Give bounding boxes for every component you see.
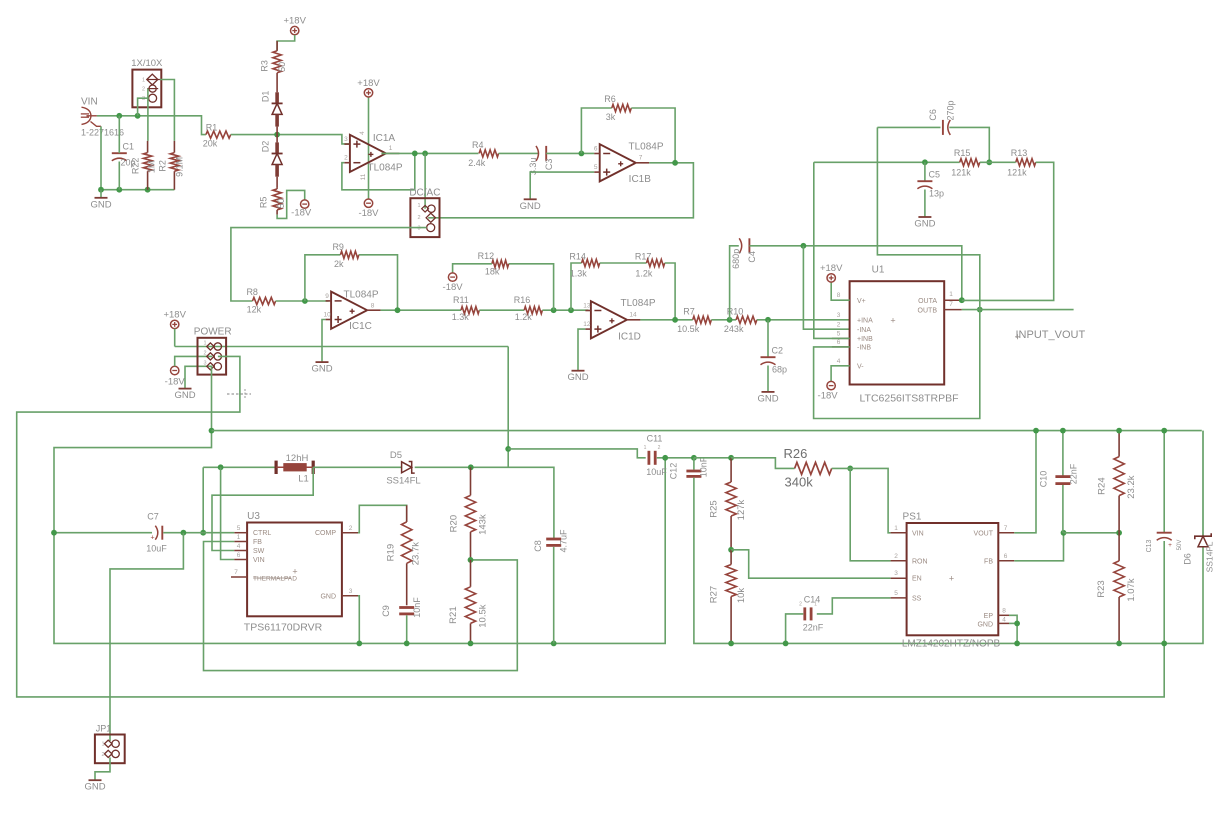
svg-text:OUTB: OUTB <box>918 308 938 315</box>
wire IC1C out <box>381 309 461 311</box>
svg-text:22nF: 22nF <box>1069 463 1079 484</box>
svg-text:D2: D2 <box>261 141 271 153</box>
svg-text:9: 9 <box>325 293 329 300</box>
ground <box>90 198 111 211</box>
power +18V POWER <box>163 309 186 328</box>
wire C4 to OUTA <box>749 246 961 300</box>
svg-text:1: 1 <box>814 602 817 608</box>
capacitor C14 <box>799 595 824 633</box>
svg-text:IC1C: IC1C <box>349 321 372 332</box>
svg-text:GND: GND <box>757 393 778 404</box>
svg-text:7: 7 <box>639 155 643 162</box>
wire +18V drop <box>507 347 509 468</box>
svg-text:D5: D5 <box>390 450 402 461</box>
svg-text:+18V: +18V <box>357 78 380 89</box>
svg-text:LTC6256ITS8TRPBF: LTC6256ITS8TRPBF <box>859 393 958 405</box>
op-amp IC1D <box>583 298 656 343</box>
svg-text:121k: 121k <box>951 167 971 177</box>
capacitor C1 <box>112 142 136 168</box>
junction <box>579 151 585 157</box>
capacitor C10 <box>1039 463 1079 487</box>
svg-text:1X/10X: 1X/10X <box>131 58 163 69</box>
wire C13 bottom <box>1163 541 1165 643</box>
wire C8 to rail <box>553 547 555 644</box>
junction <box>977 307 983 313</box>
ground <box>520 199 541 212</box>
svg-text:D6: D6 <box>1183 553 1193 565</box>
svg-text:4.7uF: 4.7uF <box>559 529 569 553</box>
wire C9 to rail <box>406 615 408 643</box>
wire R11 to R16 <box>479 309 524 311</box>
svg-text:TPS61170DRVR: TPS61170DRVR <box>244 622 323 634</box>
svg-text:270p: 270p <box>945 100 955 120</box>
svg-text:POWER: POWER <box>194 327 232 338</box>
junction <box>691 455 697 461</box>
diode D1 <box>261 82 283 135</box>
ground <box>914 217 935 230</box>
wire GND top rail <box>212 430 1202 432</box>
svg-text:L1: L1 <box>298 474 309 485</box>
svg-text:R9: R9 <box>332 242 344 252</box>
junction <box>1116 428 1122 434</box>
svg-text:10k: 10k <box>736 588 747 604</box>
wire R15 to R13 <box>980 161 1016 163</box>
junction <box>959 297 965 303</box>
svg-text:-18V: -18V <box>291 208 312 219</box>
wire -18V run <box>17 356 1165 697</box>
svg-text:12hH: 12hH <box>286 453 309 464</box>
junction <box>662 455 668 461</box>
wire OUTB to C6 loop <box>877 127 979 309</box>
svg-text:340k: 340k <box>785 475 814 490</box>
svg-text:6: 6 <box>594 146 598 153</box>
wire -18V to U1 V- <box>831 366 850 382</box>
junction <box>116 187 122 193</box>
svg-text:2: 2 <box>142 87 145 93</box>
wire C5 to GND <box>924 190 926 217</box>
svg-text:R13: R13 <box>1011 148 1028 158</box>
junction <box>728 641 734 647</box>
svg-text:GND: GND <box>977 621 993 628</box>
wire FB run <box>1014 533 1063 561</box>
connector POWER <box>194 327 232 375</box>
svg-text:R17: R17 <box>635 252 652 262</box>
capacitor C3 <box>528 146 554 175</box>
svg-text:-INA: -INA <box>857 327 871 334</box>
wire IC1A V+ <box>368 97 370 199</box>
svg-text:R6: R6 <box>604 94 616 104</box>
svg-text:C7: C7 <box>147 512 159 522</box>
wire R14 to R17 <box>600 262 647 264</box>
svg-text:-18V: -18V <box>165 377 186 388</box>
junction <box>727 317 733 323</box>
svg-text:EP: EP <box>984 613 994 620</box>
svg-text:C5: C5 <box>929 170 941 180</box>
svg-text:1: 1 <box>389 145 393 152</box>
svg-text:50: 50 <box>277 62 287 72</box>
resistor R1 <box>203 123 231 149</box>
wire R5 to -18V <box>277 190 305 218</box>
svg-text:3: 3 <box>142 96 145 102</box>
svg-text:1.07k: 1.07k <box>1126 578 1137 601</box>
capacitor C2 <box>761 346 788 375</box>
junction <box>145 187 151 193</box>
svg-text:TL084P: TL084P <box>620 298 655 309</box>
wire C1 bottom <box>118 162 120 190</box>
resistor R20 <box>449 467 489 560</box>
wire OUTB out INPUT_VOUT <box>962 309 1074 311</box>
IC U1 <box>832 265 962 405</box>
svg-text:C6: C6 <box>928 109 938 121</box>
resistor R19 <box>386 505 422 605</box>
svg-text:20k: 20k <box>203 138 218 148</box>
svg-text:VIN: VIN <box>253 557 265 564</box>
wire jumper pin1 to R2 <box>160 80 175 141</box>
svg-text:R7: R7 <box>683 307 695 317</box>
svg-text:1.2k: 1.2k <box>635 269 653 279</box>
wire out to DC/AC <box>424 153 426 208</box>
svg-text:OUTA: OUTA <box>918 298 937 305</box>
svg-text:GND: GND <box>84 782 105 793</box>
svg-text:R20: R20 <box>449 515 460 532</box>
junction <box>302 298 308 304</box>
svg-text:R3: R3 <box>260 60 270 72</box>
svg-text:GND: GND <box>90 199 111 210</box>
ground <box>757 392 778 405</box>
svg-text:PS1: PS1 <box>903 512 922 523</box>
junction <box>728 547 734 553</box>
svg-text:13p: 13p <box>929 189 944 199</box>
svg-text:68p: 68p <box>772 365 787 375</box>
wire D5 to C8 <box>415 467 554 538</box>
svg-text:GND: GND <box>567 372 588 383</box>
resistor R3 <box>260 41 288 82</box>
junction <box>672 160 678 166</box>
junction <box>209 428 215 434</box>
capacitor C13 <box>1146 533 1183 553</box>
svg-text:EN: EN <box>912 576 922 583</box>
power -18V IC1A <box>358 199 379 219</box>
svg-text:VIN: VIN <box>912 530 924 537</box>
svg-text:C2: C2 <box>772 346 784 356</box>
wire R12 to -18V <box>453 264 492 273</box>
svg-text:+: + <box>150 535 154 542</box>
svg-text:680p: 680p <box>731 249 741 269</box>
junction <box>51 530 57 536</box>
svg-text:1: 1 <box>203 341 206 347</box>
junction <box>404 641 410 647</box>
svg-text:+18V: +18V <box>283 16 306 27</box>
junction <box>1116 530 1122 536</box>
junction <box>98 187 104 193</box>
resistor R4 <box>468 140 498 168</box>
svg-text:1: 1 <box>894 525 898 532</box>
svg-text:GND: GND <box>520 201 541 212</box>
wire R7 to R10 <box>711 319 736 321</box>
svg-text:FB: FB <box>984 558 993 565</box>
junction <box>986 159 992 165</box>
svg-text:SW: SW <box>253 548 265 555</box>
diode D5 <box>313 450 420 487</box>
svg-text:TL084P: TL084P <box>343 290 378 301</box>
svg-text:2: 2 <box>417 215 420 221</box>
svg-text:+18V: +18V <box>163 309 186 320</box>
ground <box>311 362 332 375</box>
resistor R15 <box>951 148 980 177</box>
svg-text:13: 13 <box>583 303 591 310</box>
junction <box>728 455 734 461</box>
junction <box>200 530 206 536</box>
junction <box>468 557 474 563</box>
wire C10 bottom <box>1062 485 1064 533</box>
svg-text:4: 4 <box>237 543 241 550</box>
pin number 4 <box>359 131 366 135</box>
svg-text:C9: C9 <box>381 605 391 617</box>
resistor R17 <box>635 252 665 279</box>
svg-text:50V: 50V <box>1177 540 1183 551</box>
op-amp IC1C <box>323 290 380 333</box>
capacitor C6 <box>928 100 955 134</box>
svg-text:3: 3 <box>349 588 353 595</box>
resistor R27 <box>709 550 748 644</box>
wire R8 to IC1C <box>276 300 329 302</box>
wire FB to divider <box>1064 532 1120 534</box>
wire C7 right <box>163 532 203 534</box>
svg-text:3: 3 <box>203 360 206 366</box>
diode D2 <box>261 135 283 188</box>
junction <box>356 641 362 647</box>
junction <box>116 113 122 119</box>
ground <box>174 389 195 402</box>
resistor R26 <box>784 446 832 490</box>
junction <box>468 641 474 647</box>
wire GND rail A <box>54 458 665 644</box>
svg-text:C1: C1 <box>123 142 135 152</box>
junction <box>181 530 187 536</box>
svg-text:THERMALPAD: THERMALPAD <box>253 576 297 583</box>
svg-text:VOUT: VOUT <box>974 530 994 537</box>
svg-text:JP1: JP1 <box>96 724 112 734</box>
wire C2 branch <box>767 320 769 357</box>
svg-text:2.4k: 2.4k <box>468 158 486 168</box>
junction <box>1161 428 1167 434</box>
svg-text:7: 7 <box>949 301 953 308</box>
wire JP1 run <box>110 533 183 741</box>
power +18V <box>283 16 306 35</box>
svg-text:+: + <box>949 574 954 584</box>
svg-text:50: 50 <box>276 198 286 208</box>
svg-text:8: 8 <box>837 292 841 299</box>
wire EN <box>731 550 891 578</box>
svg-text:5: 5 <box>837 330 841 337</box>
svg-text:R16: R16 <box>514 295 531 305</box>
connector JP1 <box>95 724 125 764</box>
svg-text:12k: 12k <box>247 305 262 315</box>
svg-text:R21: R21 <box>448 606 459 623</box>
power +18V U1 <box>820 263 843 282</box>
svg-text:+INB: +INB <box>857 336 873 343</box>
svg-text:8: 8 <box>1002 607 1006 614</box>
wire C12 top <box>693 458 695 470</box>
op-amp IC1A <box>344 133 403 174</box>
svg-text:143k: 143k <box>478 514 489 535</box>
junction <box>1014 621 1020 627</box>
svg-text:C10: C10 <box>1039 471 1049 488</box>
op-amp IC1B <box>594 142 664 186</box>
power -18V R12 <box>443 273 464 293</box>
svg-text:+INA: +INA <box>857 318 873 325</box>
svg-text:IC1D: IC1D <box>618 332 641 343</box>
wire to C7 <box>54 532 152 534</box>
capacitor C9 <box>381 597 422 618</box>
svg-text:5: 5 <box>237 525 241 532</box>
svg-text:1.3k: 1.3k <box>452 312 470 322</box>
wire C4 branch <box>730 246 739 320</box>
wire boost output row <box>203 466 276 468</box>
svg-text:-18V: -18V <box>358 208 379 219</box>
connector X1 1-2271616 <box>81 107 124 137</box>
svg-text:3: 3 <box>344 136 348 143</box>
net label INPUT_VOUT <box>1015 329 1085 341</box>
capacitor C4 <box>731 238 757 269</box>
svg-text:GND: GND <box>174 390 195 401</box>
wire IC1B out <box>428 163 693 218</box>
svg-text:1: 1 <box>949 291 953 298</box>
svg-text:14: 14 <box>629 312 637 319</box>
wire IC1B plus to GND <box>530 172 594 199</box>
svg-text:GND: GND <box>311 364 332 375</box>
resistor R10 <box>724 307 757 334</box>
wire GND stub <box>100 190 102 198</box>
svg-text:18k: 18k <box>485 267 500 277</box>
svg-text:1.3k: 1.3k <box>570 269 588 279</box>
wire to CTRL <box>202 467 204 532</box>
wire filter input row <box>814 161 960 163</box>
svg-text:+: + <box>890 316 895 326</box>
svg-text:+18V: +18V <box>820 263 843 274</box>
junction <box>422 151 428 157</box>
junction <box>1161 641 1167 647</box>
svg-text:10nF: 10nF <box>699 456 709 477</box>
net label VIN <box>81 97 98 108</box>
wire to C11 <box>508 449 646 458</box>
svg-text:-18V: -18V <box>818 391 839 402</box>
resistor R6 <box>604 94 631 122</box>
svg-text:4: 4 <box>359 131 366 135</box>
diode D6 <box>1183 431 1215 573</box>
wire C1 top <box>118 116 120 153</box>
svg-text:+: + <box>292 567 297 577</box>
wire -18V to POWER pin2 <box>175 356 213 366</box>
wire +18V rail to boost <box>175 346 509 348</box>
svg-text:1-2271616: 1-2271616 <box>81 128 124 138</box>
svg-text:IC1B: IC1B <box>629 174 652 185</box>
svg-text:C14: C14 <box>804 595 821 605</box>
svg-text:1: 1 <box>142 78 145 84</box>
resistor R21 <box>448 560 489 644</box>
svg-text:SS14FL: SS14FL <box>386 476 420 487</box>
junction <box>218 464 224 470</box>
svg-text:10: 10 <box>323 312 331 319</box>
svg-text:D1: D1 <box>261 91 271 103</box>
svg-text:1.2k: 1.2k <box>515 312 533 322</box>
svg-text:FB: FB <box>253 539 262 546</box>
capacitor C7 <box>146 512 167 554</box>
junction <box>1116 641 1122 647</box>
resistor R13 <box>1007 148 1036 177</box>
junction <box>551 641 557 647</box>
svg-text:7: 7 <box>1004 525 1008 532</box>
svg-text:C13: C13 <box>1146 539 1153 552</box>
capacitor C8 <box>533 529 569 553</box>
wire FB run <box>204 542 518 671</box>
svg-text:121k: 121k <box>1007 167 1027 177</box>
svg-text:LMZ14202HTZ/NOPB: LMZ14202HTZ/NOPB <box>902 639 1001 650</box>
power +18V IC1A <box>357 78 380 97</box>
svg-text:R22: R22 <box>131 158 141 175</box>
wire +18V to R3 <box>277 35 295 51</box>
resistor R7 <box>677 307 711 334</box>
junction <box>395 307 401 313</box>
resistor R9 <box>332 242 358 269</box>
svg-text:1: 1 <box>237 534 241 541</box>
svg-text:2: 2 <box>658 445 661 451</box>
capacitor C11 <box>644 434 668 478</box>
wire -18V rail B <box>694 478 1203 644</box>
svg-text:-INB: -INB <box>857 345 871 352</box>
svg-text:SS14FL: SS14FL <box>1205 541 1215 572</box>
wire R25 wire <box>694 457 731 459</box>
wire IC1A feedback <box>342 153 415 189</box>
wire U3 GND <box>358 596 359 644</box>
svg-text:INPUT_VOUT: INPUT_VOUT <box>1016 329 1086 341</box>
wire C14 to rail <box>786 614 804 644</box>
resistor R11 <box>452 295 480 322</box>
wire R9 branch <box>305 255 341 301</box>
junction <box>1033 428 1039 434</box>
svg-text:DC/AC: DC/AC <box>409 188 440 199</box>
wire EP GND join <box>1009 615 1017 643</box>
wire VOUT up <box>1014 431 1036 533</box>
junction <box>551 307 557 313</box>
wire R12 branch <box>509 264 554 310</box>
wire GND pin <box>1009 622 1017 624</box>
svg-text:V-: V- <box>857 364 864 371</box>
wire R17 to out <box>665 263 675 320</box>
resistor R24 <box>1097 431 1138 533</box>
svg-text:V+: V+ <box>857 298 866 305</box>
wire R26 to RON <box>832 468 891 560</box>
svg-text:5: 5 <box>894 590 898 597</box>
resistor R8 <box>246 287 275 315</box>
svg-text:R2: R2 <box>157 160 167 172</box>
svg-text:10uF: 10uF <box>146 544 167 554</box>
svg-text:6: 6 <box>237 552 241 559</box>
wire C6 right <box>949 127 989 162</box>
svg-text:2: 2 <box>349 525 353 532</box>
wire VIN drop <box>221 467 235 559</box>
svg-text:SS: SS <box>912 595 922 602</box>
power -18V U1 <box>818 381 839 401</box>
svg-text:3: 3 <box>417 226 420 232</box>
svg-text:C11: C11 <box>647 434 663 444</box>
svg-text:5: 5 <box>594 164 598 171</box>
svg-text:R27: R27 <box>709 586 720 603</box>
svg-text:CTRL: CTRL <box>253 530 271 537</box>
svg-text:3: 3 <box>837 312 841 319</box>
svg-text:-18V: -18V <box>443 282 464 293</box>
wire DC/AC pin3 to R8 <box>231 228 427 301</box>
